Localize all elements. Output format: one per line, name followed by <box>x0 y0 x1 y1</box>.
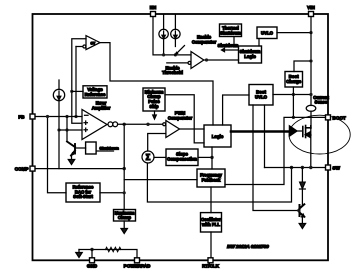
wire FB to DAC <box>48 117 67 193</box>
box frequency foldback <box>197 169 225 187</box>
svg-text:Shutdown: Shutdown <box>218 43 239 48</box>
wire OV bubble input <box>75 47 77 117</box>
box reference DAC <box>66 183 100 202</box>
enable comparator U2 <box>191 52 204 69</box>
minus sign EA <box>85 114 89 116</box>
wire slope comp to logic drop <box>198 156 212 158</box>
box slope compensation <box>166 149 198 166</box>
node dot Vref tap <box>70 90 73 93</box>
svg-text:Skip: Skip <box>149 104 158 109</box>
wire boot UVLO leg A <box>253 105 298 211</box>
wire GND riser <box>91 250 93 259</box>
node dot EN-I2 <box>162 53 165 56</box>
box voltage reference <box>83 86 107 98</box>
wire Q2 collector <box>300 206 303 209</box>
wire DAC output <box>100 192 124 194</box>
ground below Q2 <box>299 217 305 229</box>
svg-text:Soft-Start: Soft-Start <box>73 194 93 199</box>
svg-text:Compensation: Compensation <box>167 157 197 162</box>
wire shutdown transistor drop <box>66 117 68 142</box>
transistor M1 power FET <box>303 126 311 138</box>
svg-text:BOOT: BOOT <box>333 115 346 120</box>
node dot EA out <box>123 123 126 126</box>
wire FF to oscillator <box>210 187 212 213</box>
bubble on U2 inverting input <box>188 61 191 64</box>
svg-text:Σ: Σ <box>146 153 151 162</box>
current source I3 <box>171 15 180 47</box>
node dot I1 on EA input line <box>57 128 60 131</box>
node dot EN-I3 <box>174 53 177 56</box>
node dot U2 out <box>205 58 208 61</box>
node dot FB line x67 <box>65 115 68 118</box>
node dot FB-bubble <box>74 115 77 118</box>
box thermal shutdown <box>220 24 242 37</box>
bubble PWM input <box>163 123 166 126</box>
svg-text:Threshold: Threshold <box>162 70 183 75</box>
node dot GND riser <box>90 248 93 251</box>
wire sigma to PWM <box>148 134 166 152</box>
svg-text:FB: FB <box>18 115 25 120</box>
node dot diode-SW <box>301 166 304 169</box>
bottom ground network wire <box>79 250 137 259</box>
node dot COMP-EAout <box>123 167 126 170</box>
box oscillator with PLL <box>201 213 222 232</box>
ground below maximum clamp <box>121 221 127 234</box>
node dot boot line <box>292 116 295 119</box>
wire EN vertical and horizontal rail <box>153 16 191 55</box>
wire COMP line <box>35 168 124 170</box>
svg-text:Foldback: Foldback <box>202 178 221 183</box>
current sense ellipse <box>306 105 316 111</box>
wire FB line <box>35 116 82 118</box>
wire COMP to frequency foldback <box>124 179 197 181</box>
pin FB <box>30 114 35 119</box>
box shutdown logic <box>239 46 262 63</box>
wire BOOT line <box>225 117 328 184</box>
arrow MCPS down <box>153 111 157 119</box>
node dot DAC-COMP vertical <box>123 191 126 194</box>
wire gate drive <box>231 130 289 133</box>
svg-text:UVLO: UVLO <box>255 95 268 100</box>
resistor R1 <box>106 247 121 251</box>
wire FET source to SW <box>310 128 312 168</box>
ground below Q1 <box>68 156 74 165</box>
wire PWM output to logic <box>180 128 205 130</box>
svg-text:GND: GND <box>87 264 98 269</box>
plus sign EA mid <box>84 121 87 124</box>
node dot SW sense <box>290 166 293 169</box>
shutdown signal arrow from shutdown logic <box>224 49 239 51</box>
wire UVLO to shutdown logic <box>258 39 260 47</box>
box boot charge <box>285 72 303 88</box>
box UVLO top <box>257 27 277 39</box>
node dot VIN boot charge tap <box>309 59 312 62</box>
gate driver triangle <box>289 126 297 136</box>
summing node sigma <box>142 151 154 163</box>
svg-text:Comparator: Comparator <box>168 115 193 120</box>
svg-text:Shutdown: Shutdown <box>220 30 241 35</box>
svg-text:Reference: Reference <box>85 92 106 97</box>
box maximum clamp <box>114 210 136 222</box>
wire box to Q1 <box>75 147 86 149</box>
wire boot UVLO to VIN rail <box>273 94 311 96</box>
wire U2 output to shutdown logic <box>204 59 239 61</box>
switch blade on I3 <box>175 46 185 56</box>
svg-text:Shutdown: Shutdown <box>100 146 120 151</box>
box shutdown switch <box>86 142 97 154</box>
diode D1 <box>300 168 306 207</box>
wire sigma bottom to SW sense <box>147 163 291 202</box>
wire logic bottom <box>211 147 213 169</box>
box logic <box>204 125 231 147</box>
pin VIN <box>309 12 314 17</box>
wire boot UVLO to logic <box>223 95 249 125</box>
svg-text:POWERPAD: POWERPAD <box>124 264 151 269</box>
svg-text:UVLO: UVLO <box>261 31 274 36</box>
node dot VIN-BU <box>309 93 312 96</box>
op-amp error amplifier U3 <box>82 110 107 140</box>
wire VIN vertical power rail <box>310 16 312 106</box>
wire oscillator to RT/CLK <box>210 232 212 258</box>
comparator PWM <box>166 121 180 138</box>
pin BOOT <box>326 115 331 120</box>
pin EN <box>151 12 156 17</box>
wire EA output vertical <box>123 124 125 209</box>
transistor Q1 shutdown pulldown <box>67 142 75 156</box>
wire EA out to PWM <box>118 123 163 125</box>
svg-text:EN: EN <box>150 5 157 10</box>
svg-text:with PLL: with PLL <box>201 222 220 227</box>
wire EA plus input line <box>59 129 82 131</box>
current source I1 <box>53 80 64 169</box>
node dot UVLO-VIN <box>309 31 312 34</box>
pin SW <box>326 165 331 170</box>
svg-text:Clamp: Clamp <box>118 215 132 220</box>
svg-text:RT/CLK: RT/CLK <box>202 264 220 269</box>
wire OV output to logic <box>100 43 213 125</box>
node dot FET-SW <box>309 166 312 169</box>
svg-text:BW 2012A 0192789: BW 2012A 0192789 <box>227 244 269 250</box>
pin POWERPAD <box>135 258 140 263</box>
wire boot UVLO leg B <box>264 105 266 168</box>
wire driver to gate <box>297 130 303 132</box>
bubble OV input <box>83 45 86 48</box>
plus sign EA low <box>84 128 87 131</box>
wire current sense to FET drain <box>310 111 312 128</box>
op-amp OV comparator <box>86 36 100 50</box>
wire sigma to slope comp <box>154 156 166 158</box>
wire Vref to box <box>72 90 83 92</box>
ground symbol bottom <box>76 250 82 258</box>
box minimum clamp pulse skip <box>143 88 165 111</box>
svg-text:COMP: COMP <box>15 167 29 172</box>
svg-text:Amplifier: Amplifier <box>92 105 111 110</box>
node dot MCPS tap <box>146 123 149 126</box>
current source I2 <box>159 15 168 55</box>
svg-text:Sense: Sense <box>315 100 328 105</box>
gm output circles <box>108 122 113 127</box>
wire UVLO to VIN rail <box>277 32 311 34</box>
node dot EA line x67 <box>65 128 68 131</box>
transistor Q2 <box>300 204 305 216</box>
wire SW line <box>265 167 329 169</box>
node dot Q2 base <box>297 209 300 212</box>
pin GND <box>90 258 95 263</box>
node dot logic drop <box>210 156 213 159</box>
wire enable threshold <box>167 62 188 64</box>
svg-text:Charge: Charge <box>286 79 301 84</box>
box boot UVLO <box>249 85 273 106</box>
svg-text:VIN: VIN <box>307 5 315 10</box>
wire boot charge down to BOOT line <box>292 87 294 117</box>
wire MCPS to logic <box>165 95 204 143</box>
wire VIN to boot charge <box>294 61 311 72</box>
node dot on boot charge leg <box>292 93 295 96</box>
border frame <box>33 14 329 260</box>
pin RT/CLK <box>208 258 213 263</box>
ellipse power stage highlight <box>289 115 350 154</box>
wire OV comparator loop top input <box>72 39 86 124</box>
node dot FB-DAC <box>46 115 49 118</box>
svg-text:Comparator: Comparator <box>192 39 217 44</box>
wire thermal shutdown to shutdown logic <box>233 37 235 47</box>
wire shutdown signal to box <box>96 150 113 152</box>
svg-text:Logic: Logic <box>212 134 224 139</box>
pin COMP <box>30 166 35 171</box>
svg-text:Logic: Logic <box>244 54 256 59</box>
svg-text:SW: SW <box>333 166 341 171</box>
